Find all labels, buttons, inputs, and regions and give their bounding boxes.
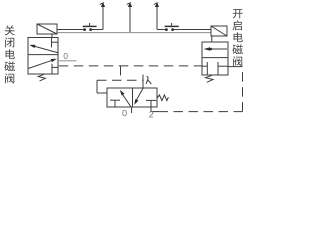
pilot branch horizontal (dashed) <box>97 79 143 81</box>
wire: contact S2 to right coil <box>174 29 211 31</box>
pilot hook to main valve left end <box>97 80 107 93</box>
spring of valve V1 <box>38 74 45 81</box>
port label lambda mark <box>146 76 151 84</box>
spring of valve V2 <box>206 75 213 82</box>
pilot link into V2 right port <box>228 66 243 68</box>
node 2 port of V3 <box>149 107 158 117</box>
wire: power riser 2 with up arrow <box>127 2 132 32</box>
contact S2 (right limit contact) <box>165 23 179 31</box>
pilot riser on right edge (dashed) <box>242 67 244 112</box>
valve V1 upper position: flow arrow <box>29 45 57 53</box>
pilot line: V1 port to V2 left port (dashed) <box>59 65 202 67</box>
wire: right coil upper wire <box>157 29 165 31</box>
node 0 port of V3 <box>122 107 131 116</box>
spring of valve V3 (right side) <box>157 95 168 101</box>
solenoid coil YV2 (open) <box>211 26 227 36</box>
pilot line: V3 port2 to right (dashed) <box>159 111 243 113</box>
valve V2 upper position: flow arrow (left) <box>204 47 227 51</box>
valve V1 upper position: blocked port T <box>52 38 59 48</box>
contact S1 (left limit contact) <box>83 23 97 31</box>
label: right caption 开启电磁阀 (open solenoid valve) <box>232 9 242 66</box>
valve V2 lower position: blocked ports <box>202 62 228 75</box>
wire: coil YV1 to valve body <box>51 34 53 38</box>
wire: power riser 1 with up arrow <box>100 2 105 29</box>
wire: contact S1 to riser 1 <box>92 29 103 31</box>
V3 left position: blocked port T <box>110 100 120 107</box>
label: left caption 关闭电磁阀 (close solenoid valve) <box>4 25 14 83</box>
V3 top port line <box>142 75 144 89</box>
valve V1 lower position: blocked port T <box>52 64 58 74</box>
wire: common lower bus (gray) <box>57 32 211 34</box>
wire: left coil upper wire <box>57 29 84 31</box>
wire: coil YV2 to valve body <box>211 36 213 42</box>
V3 right position: flow arrow <box>134 88 143 105</box>
solenoid coil YV1 (close) <box>37 24 57 34</box>
pilot branch riser at junction (dashed) <box>120 66 122 80</box>
valve V1 body (close pilot valve) <box>28 38 58 75</box>
wire: power riser 3 with up arrow <box>154 2 159 29</box>
V3 right position: blocked port T <box>146 100 156 107</box>
valve V2 body (open pilot valve) <box>202 42 228 75</box>
main valve V3 body <box>107 88 157 107</box>
node 0 output line of V1 (gray) <box>59 53 77 61</box>
valve V1 lower position: flow arrow <box>29 59 57 69</box>
V3 left position: flow arrow <box>120 90 131 107</box>
